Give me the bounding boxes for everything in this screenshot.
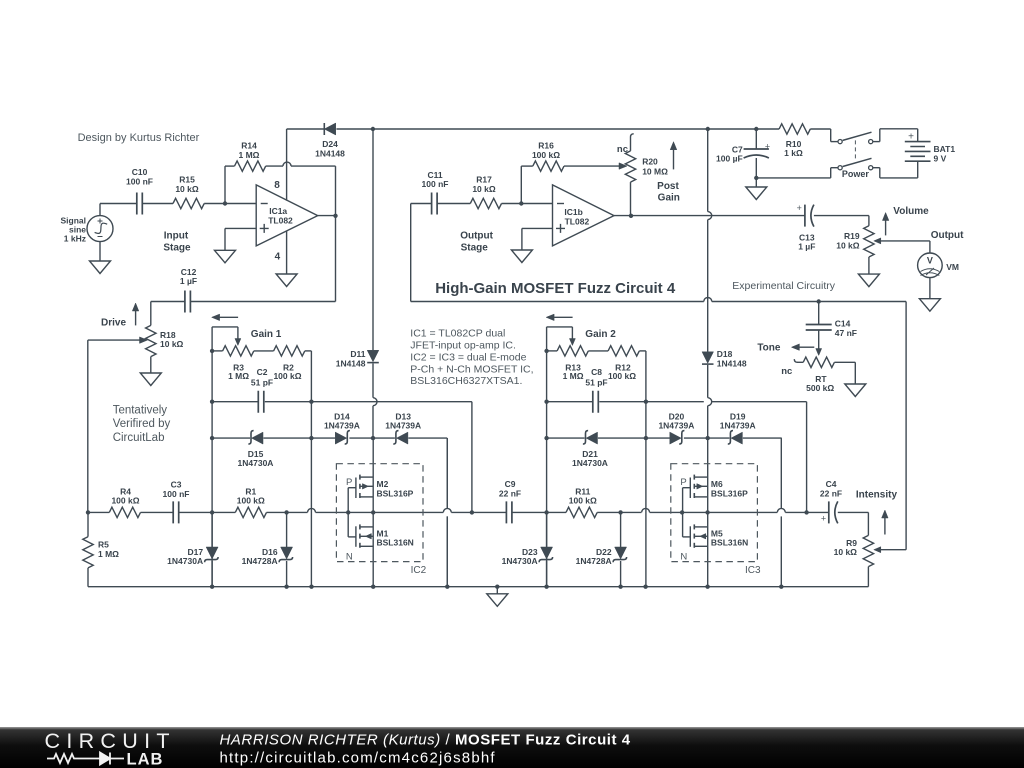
svg-text:R20: R20 <box>642 157 658 167</box>
svg-text:1N4148: 1N4148 <box>315 148 345 158</box>
svg-text:51 pF: 51 pF <box>251 378 273 388</box>
svg-text:Tentatively: Tentatively <box>113 405 168 417</box>
svg-text:1N4148: 1N4148 <box>717 359 747 369</box>
svg-text:22 nF: 22 nF <box>499 488 521 498</box>
svg-text:R19: R19 <box>844 231 860 241</box>
svg-text:8: 8 <box>274 180 280 191</box>
svg-text:1 kΩ: 1 kΩ <box>784 148 803 158</box>
svg-text:10 MΩ: 10 MΩ <box>642 167 668 177</box>
svg-text:10 kΩ: 10 kΩ <box>175 184 199 194</box>
svg-text:Gain 1: Gain 1 <box>251 329 282 340</box>
svg-text:100 kΩ: 100 kΩ <box>532 150 560 160</box>
svg-text:100 kΩ: 100 kΩ <box>273 371 301 381</box>
svg-text:100 kΩ: 100 kΩ <box>237 496 265 506</box>
svg-text:C2: C2 <box>257 367 268 377</box>
svg-text:http://circuitlab.com/cm4c62j6: http://circuitlab.com/cm4c62j6s8bhf <box>220 749 496 766</box>
svg-text:Gain: Gain <box>658 193 680 204</box>
svg-text:1N4730A: 1N4730A <box>572 458 608 468</box>
svg-text:C8: C8 <box>591 367 602 377</box>
svg-text:Design by Kurtus Richter: Design by Kurtus Richter <box>78 132 200 144</box>
svg-text:1N4739A: 1N4739A <box>720 420 756 430</box>
svg-text:9 V: 9 V <box>934 154 947 164</box>
svg-text:1 µF: 1 µF <box>798 242 815 252</box>
svg-text:1 MΩ: 1 MΩ <box>563 371 584 381</box>
svg-text:P: P <box>346 477 352 488</box>
svg-text:100 nF: 100 nF <box>163 489 190 499</box>
svg-text:JFET-input op-amp IC.: JFET-input op-amp IC. <box>410 340 516 352</box>
svg-text:nc: nc <box>617 144 628 155</box>
svg-text:BSL316N: BSL316N <box>377 538 414 548</box>
svg-text:1 MΩ: 1 MΩ <box>228 371 249 381</box>
svg-text:Stage: Stage <box>163 243 191 254</box>
svg-text:TL082: TL082 <box>268 216 293 226</box>
svg-text:10 kΩ: 10 kΩ <box>472 184 496 194</box>
svg-text:BSL316N: BSL316N <box>711 538 748 548</box>
svg-text:TL082: TL082 <box>565 216 590 226</box>
svg-text:100 kΩ: 100 kΩ <box>569 496 597 506</box>
svg-text:4: 4 <box>275 251 281 262</box>
svg-text:1N4148: 1N4148 <box>336 358 366 368</box>
svg-text:Drive: Drive <box>101 317 126 328</box>
svg-text:Gain 2: Gain 2 <box>585 329 616 340</box>
svg-text:100 kΩ: 100 kΩ <box>608 371 636 381</box>
svg-text:Stage: Stage <box>461 243 489 254</box>
svg-text:VM: VM <box>946 262 959 272</box>
svg-text:1 MΩ: 1 MΩ <box>239 150 260 160</box>
svg-text:BAT1: BAT1 <box>934 144 956 154</box>
svg-text:BSL316CH6327XTSA1.: BSL316CH6327XTSA1. <box>410 375 522 387</box>
svg-text:Verifired by: Verifired by <box>113 418 171 430</box>
svg-text:IC2: IC2 <box>411 565 427 576</box>
svg-text:51 pF: 51 pF <box>585 378 607 388</box>
svg-text:N: N <box>680 552 687 563</box>
svg-text:Output: Output <box>460 230 493 241</box>
svg-text:BSL316P: BSL316P <box>711 489 748 499</box>
svg-text:22 nF: 22 nF <box>820 488 842 498</box>
svg-text:IC3: IC3 <box>745 565 761 576</box>
svg-text:10 kΩ: 10 kΩ <box>834 547 858 557</box>
svg-text:1N4730A: 1N4730A <box>238 458 274 468</box>
svg-text:1 µF: 1 µF <box>180 276 197 286</box>
svg-text:P-Ch + N-Ch MOSFET IC,: P-Ch + N-Ch MOSFET IC, <box>410 363 533 375</box>
svg-text:100 nF: 100 nF <box>126 176 153 186</box>
svg-text:nc: nc <box>781 366 792 377</box>
svg-text:IC2 = IC3 = dual E-mode: IC2 = IC3 = dual E-mode <box>410 351 526 363</box>
svg-text:100 nF: 100 nF <box>422 179 449 189</box>
svg-text:IC1 = TL082CP dual: IC1 = TL082CP dual <box>410 328 505 340</box>
svg-text:Power: Power <box>842 169 870 179</box>
svg-text:1N4739A: 1N4739A <box>385 420 421 430</box>
svg-text:BSL316P: BSL316P <box>377 489 414 499</box>
svg-text:M6: M6 <box>711 479 723 489</box>
svg-text:1N4739A: 1N4739A <box>658 420 694 430</box>
svg-text:Output: Output <box>931 230 964 241</box>
svg-text:500 kΩ: 500 kΩ <box>806 383 834 393</box>
svg-text:CircuitLab: CircuitLab <box>113 432 165 444</box>
svg-text:+: + <box>908 131 914 142</box>
svg-text:+: + <box>797 203 802 213</box>
svg-text:HARRISON RICHTER (Kurtus) / MO: HARRISON RICHTER (Kurtus) / MOSFET Fuzz … <box>220 732 631 749</box>
svg-text:100 µF: 100 µF <box>716 154 743 164</box>
svg-text:1N4730A: 1N4730A <box>167 556 203 566</box>
svg-text:Tone: Tone <box>757 343 781 354</box>
svg-text:1 MΩ: 1 MΩ <box>98 549 119 559</box>
svg-text:1N4728A: 1N4728A <box>242 556 278 566</box>
svg-text:Intensity: Intensity <box>856 489 898 500</box>
svg-text:1N4730A: 1N4730A <box>502 556 538 566</box>
svg-text:P: P <box>680 477 686 488</box>
svg-text:100 kΩ: 100 kΩ <box>111 496 139 506</box>
svg-text:Experimental Circuitry: Experimental Circuitry <box>732 280 835 292</box>
svg-text:High-Gain MOSFET Fuzz Circuit: High-Gain MOSFET Fuzz Circuit 4 <box>435 280 676 297</box>
svg-text:1N4728A: 1N4728A <box>576 556 612 566</box>
svg-text:M2: M2 <box>377 479 389 489</box>
svg-text:+: + <box>821 514 826 524</box>
svg-text:10 kΩ: 10 kΩ <box>160 339 184 349</box>
svg-text:Volume: Volume <box>893 206 929 217</box>
svg-text:IC1a: IC1a <box>269 206 287 216</box>
svg-text:C14: C14 <box>835 318 851 328</box>
svg-text:V: V <box>927 256 933 266</box>
svg-text:D18: D18 <box>717 349 733 359</box>
svg-text:LAB: LAB <box>127 750 164 768</box>
svg-text:1N4739A: 1N4739A <box>324 420 360 430</box>
svg-text:1 kHz: 1 kHz <box>64 233 86 243</box>
svg-text:Input: Input <box>164 230 189 241</box>
svg-text:+: + <box>765 141 770 151</box>
svg-text:47 nF: 47 nF <box>835 328 857 338</box>
svg-text:10 kΩ: 10 kΩ <box>836 241 860 251</box>
svg-text:Post: Post <box>657 181 679 192</box>
svg-text:N: N <box>346 552 353 563</box>
